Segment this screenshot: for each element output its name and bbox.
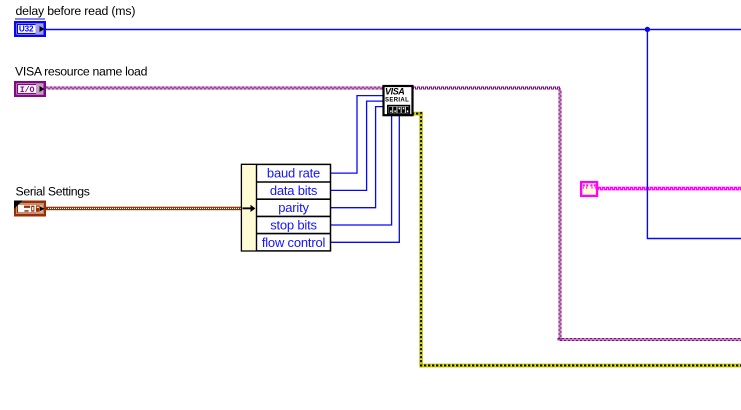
svg-text:delay before read (ms): delay before read (ms) bbox=[16, 4, 136, 18]
svg-text:Serial Settings: Serial Settings bbox=[16, 184, 90, 198]
svg-text:U32: U32 bbox=[19, 25, 34, 34]
wire: parity (blue) bbox=[331, 107, 383, 208]
svg-text:data bits: data bits bbox=[270, 183, 318, 198]
wire: error out bottom run to right edge bbox=[419, 364, 741, 368]
svg-text:I/O: I/O bbox=[20, 85, 35, 95]
control terminal I/O (VISA resource name) bbox=[14, 81, 46, 97]
control terminal Serial Settings (cluster) bbox=[14, 201, 46, 217]
svg-text:stop bits: stop bits bbox=[270, 218, 317, 233]
svg-text:parity: parity bbox=[278, 200, 309, 215]
svg-text:SERIAL: SERIAL bbox=[385, 97, 409, 103]
wire: baud rate (blue) bbox=[331, 96, 383, 174]
unbundle by name node: Serial Settings fields bbox=[242, 164, 331, 251]
wire: delay before read (blue numeric) top horizontal bbox=[46, 29, 741, 31]
svg-text:flow control: flow control bbox=[262, 235, 326, 250]
wire: Serial Settings cluster (brown dotted) bbox=[46, 207, 242, 211]
wire: VISA resource node to corner bbox=[414, 87, 561, 89]
wire: data bits (blue) bbox=[331, 101, 383, 190]
wire: flow control (blue) bbox=[331, 116, 400, 242]
svg-text:VISA resource name load: VISA resource name load bbox=[15, 65, 148, 79]
svg-text:baud rate: baud rate bbox=[267, 166, 320, 181]
wire: VISA resource (purple zigzag) terminal to node bbox=[46, 87, 383, 89]
junction dot on delay wire bbox=[645, 27, 650, 32]
wire: stop bits (blue) bbox=[331, 116, 392, 225]
svg-text:VISA: VISA bbox=[385, 87, 404, 97]
VISA Configure Serial Port node U1 bbox=[384, 86, 413, 115]
wire: VISA resource bottom run to right edge bbox=[558, 339, 741, 341]
wire: delay blue vertical branch bbox=[647, 30, 741, 239]
wire: error out vertical drop bbox=[419, 112, 422, 368]
control terminal U32 (delay before read) bbox=[14, 21, 46, 37]
wire: VISA resource vertical drop bbox=[559, 89, 561, 340]
label: delay before read (ms) bbox=[15, 4, 135, 20]
wire: string (pink zigzag) to right edge bbox=[599, 188, 741, 190]
wire: error out (yellow/black) stub from VISA node bbox=[414, 112, 423, 116]
string constant (empty) bbox=[581, 182, 597, 196]
